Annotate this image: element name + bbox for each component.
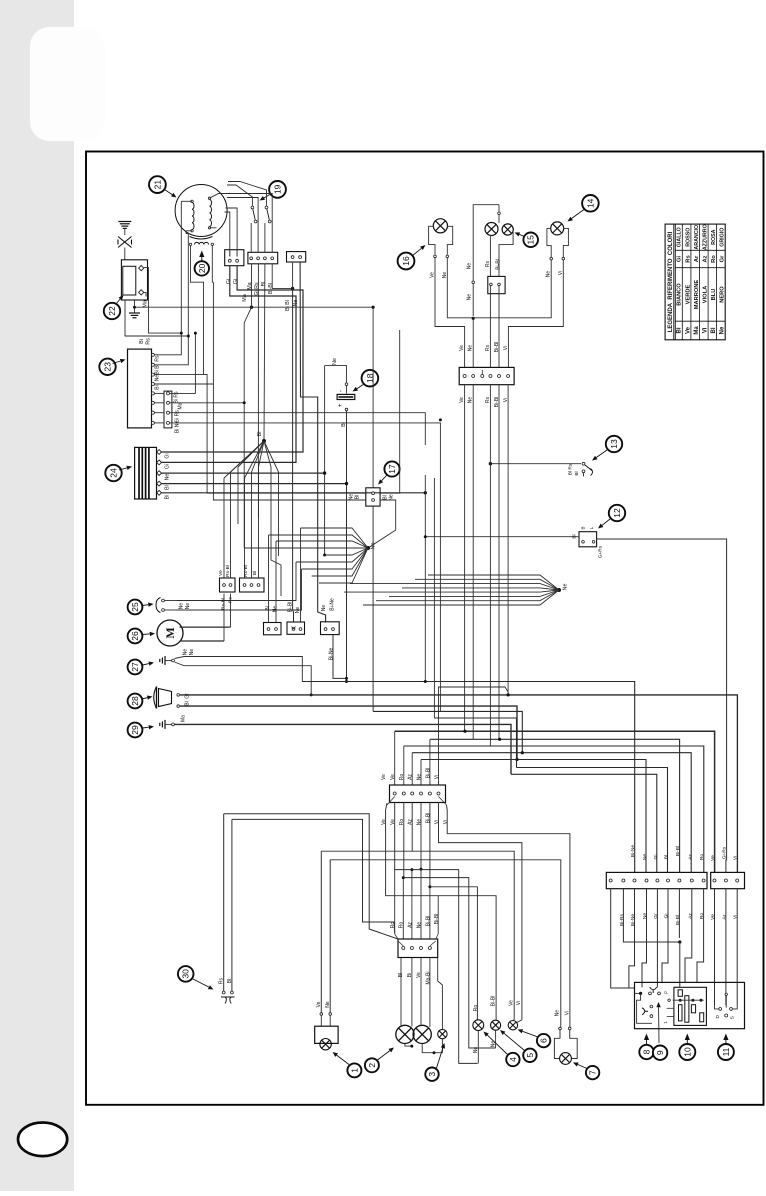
node Ne fan lower [344,575,569,605]
svg-text:Az: Az [703,255,709,262]
svg-text:Ar: Ar [721,914,727,919]
svg-text:Rs: Rs [219,977,225,984]
battery 18 [337,383,355,683]
pilot lamp 7 [554,1010,577,1065]
callout 14 [568,195,599,222]
callout 7 [573,1063,599,1080]
callout 25 [128,600,154,615]
svg-text:Rs-Bl: Rs-Bl [243,565,249,577]
lamp 5 [491,996,501,1048]
connector 6-pin dash [459,367,514,407]
wires below 6-pin headlamp connector staircase [386,802,570,1063]
svg-text:Ne: Ne [185,603,191,610]
svg-text:Ve: Ve [459,345,465,351]
wires strips to switch box [611,889,738,1005]
svg-text:AZZURRO: AZZURRO [703,224,709,250]
svg-text:Bl: Bl [257,432,263,437]
svg-text:Ne: Ne [467,263,473,270]
callout 11 [718,1034,734,1061]
svg-text:VERDE: VERDE [685,285,691,305]
svg-text:Ro: Ro [711,255,717,263]
callout 26 [128,629,155,644]
lamp 16 [429,219,453,279]
svg-text:3: 3 [427,1072,437,1077]
wire Bi-Ne from box down [333,635,348,680]
CDI unit 22 [121,260,147,300]
ground above spark plug [118,222,131,236]
svg-text:Gi: Gi [233,279,239,284]
svg-text:Ma: Ma [694,326,700,335]
callout 1 [333,1052,362,1077]
svg-text:Ne: Ne [417,922,423,929]
headlamp lamps 3 [396,958,447,1055]
svg-text:6: 6 [539,1038,549,1043]
svg-text:Ro: Ro [699,854,705,861]
svg-text:Bi-Ne: Bi-Ne [630,845,636,858]
svg-text:Bi Bl: Bi Bl [285,300,291,311]
legend table LEGENDA RIFERIMENTO COLORI [665,224,725,340]
svg-text:VIOLA: VIOLA [703,286,709,303]
svg-text:Bi: Bi [407,973,413,977]
svg-text:S: S [729,1016,735,1019]
tail lamp 1 [315,851,338,1050]
svg-text:Bi-Bl: Bi-Bl [675,846,681,856]
svg-text:Ve: Ve [509,1000,515,1006]
svg-text:Bi-Ne: Bi-Ne [330,598,336,611]
svg-text:24: 24 [109,468,119,478]
svg-text:12: 12 [612,508,622,518]
grey binder strip [0,0,74,1191]
callout 21 [149,176,177,197]
wires lamps to 6-pin connector [435,258,563,367]
callout 13 [592,436,622,461]
svg-text:Ve: Ve [316,1001,322,1007]
svg-text:GRIGIO: GRIGIO [720,228,726,247]
svg-text:Bl Rs: Bl Rs [568,463,574,475]
switch 11 dimmer [715,993,738,1019]
svg-text:Rs: Rs [685,255,691,262]
svg-text:Ar: Ar [694,255,700,262]
svg-text:10: 10 [682,1047,692,1057]
svg-text:Bi-Bl: Bi-Bl [496,259,502,270]
svg-text:ARANCIO: ARANCIO [694,225,700,250]
svg-text:Rs-Bl: Rs-Bl [225,565,231,577]
svg-text:Az: Az [408,922,414,928]
callout 18 [353,370,379,392]
svg-text:20: 20 [197,263,207,273]
svg-text:Vi: Vi [434,820,440,824]
callout 20 with arrow [195,251,209,276]
connector 4-pin Ma Gi-Rs Bl Bi-Bl [247,252,277,295]
svg-text:Bl: Bl [261,282,267,287]
svg-text:29: 29 [130,725,140,735]
callout 27 [128,660,154,675]
svg-text:D: D [715,1015,721,1019]
svg-text:Bl: Bl [711,327,717,333]
wires 6-pin column corners [395,687,508,785]
svg-text:M: M [163,627,177,638]
wire pickup leads [191,246,214,375]
svg-text:17: 17 [387,464,397,474]
page hole ellipse [18,1123,67,1157]
svg-text:Gr: Gr [653,913,659,919]
svg-text:Bi: Bi [155,385,161,389]
svg-text:Vi: Vi [434,775,440,779]
svg-text:Bi-Bl: Bi-Bl [426,768,432,779]
wire Ma bus to connector 17 [252,306,375,488]
callout 3 [425,1043,445,1081]
svg-text:Bl: Bl [574,471,580,475]
wires of pair boxes below [224,594,231,641]
svg-text:Gr: Gr [185,693,191,699]
svg-text:Ne: Ne [165,474,171,481]
svg-text:Ne: Ne [273,606,279,613]
svg-text:Bi-Rs: Bi-Rs [619,913,625,926]
svg-text:Ne: Ne [179,603,185,610]
svg-text:Gi: Gi [653,855,659,860]
svg-text:Bi-Ne: Bi-Ne [630,914,636,927]
ground 27 [160,649,347,697]
connector strip 9-pin [606,845,707,927]
wire Gi-Rs run from regulator [170,413,426,445]
lamps 15 twin [467,205,514,316]
svg-text:Ne: Ne [155,375,161,382]
diode unit 12 [572,526,604,558]
svg-text:11: 11 [721,1047,731,1056]
wire Bi-Ne run from regulator [170,423,441,478]
svg-text:14: 14 [585,198,595,208]
svg-text:Az: Az [408,774,414,780]
regulator box 23 [128,349,184,433]
resistor box 15 [488,276,505,367]
wire runs bundle to switch panel [180,682,737,873]
svg-text:Bi: Bi [165,495,171,500]
breaker switch 19a [251,201,257,253]
svg-text:27: 27 [130,662,140,672]
svg-text:8: 8 [642,1049,652,1054]
flasher unit 25 [156,598,191,613]
callout 29 [128,723,154,738]
svg-text:Rs: Rs [485,344,491,351]
node fan verticals down [424,418,442,718]
handlebar switch box [635,982,745,1028]
svg-text:ROSA: ROSA [711,229,717,244]
pickup coil under generator [189,237,213,246]
callout 9 [653,1002,667,1060]
wire device 12 left [425,536,579,538]
svg-text:23: 23 [103,362,113,372]
svg-text:28: 28 [130,696,140,706]
switch 10 block [663,987,706,1025]
svg-text:Rs: Rs [146,338,152,345]
wire Bi-Bl junction [272,262,294,623]
svg-text:Gi-Rs: Gi-Rs [598,545,604,558]
svg-text:Bi-Bl: Bi-Bl [491,996,497,1007]
svg-text:Ne: Ne [563,584,569,591]
svg-text:Ne: Ne [720,326,726,334]
svg-text:B: B [581,526,586,529]
connector 4-pin headlamp [390,914,440,985]
svg-text:Bi Rs: Bi Rs [174,391,180,403]
wire runs tail lamp right [321,851,561,1027]
connector 2-pin Gi Gi [225,250,244,285]
svg-text:1: 1 [349,1068,359,1073]
callout 23 [99,359,125,375]
svg-text:GIALLO: GIALLO [677,227,683,247]
svg-text:Ne: Ne [325,1001,331,1008]
callout 16 [398,245,426,269]
wires generator to connectors [225,182,273,257]
svg-text:Ve: Ve [218,570,224,576]
wire Ma run double jog [175,724,512,774]
svg-text:Ne: Ne [468,397,474,404]
motor 26 [157,620,231,646]
wire Bi-Ne run double jog [373,506,524,754]
white rounded thumb tab [30,27,105,141]
svg-text:7: 7 [588,1070,598,1075]
svg-text:Ma: Ma [178,402,184,409]
svg-text:Ve: Ve [685,326,691,334]
svg-text:Rs: Rs [485,260,491,267]
wire Ne to battery [325,358,347,555]
svg-text:4: 4 [508,1057,518,1062]
svg-text:Ne: Ne [417,819,423,826]
svg-text:BIANCO: BIANCO [677,283,683,306]
svg-text:Gi: Gi [664,914,670,919]
svg-text:+: + [337,403,344,407]
callout 19 [260,181,286,201]
callout 28 [128,694,153,709]
svg-text:Ne: Ne [189,649,195,656]
svg-text:Ve: Ve [381,774,387,780]
svg-text:Ma: Ma [181,715,187,722]
svg-text:Bl: Bl [165,485,171,490]
wire Bi Rs pair from CDI [125,268,188,345]
callout 15 [515,232,539,247]
wires from fuse box [162,266,427,495]
svg-text:Gi: Gi [226,279,232,284]
svg-text:Bi-Bl: Bi-Bl [494,342,500,353]
svg-text:Bi: Bi [677,327,683,333]
node Ne fan [244,528,376,583]
connector strip 3-pin [710,846,745,920]
svg-text:Ne: Ne [642,913,648,920]
svg-text:MARRONE: MARRONE [694,280,700,310]
callout 4 [484,1032,520,1067]
svg-text:Ro: Ro [699,913,705,920]
svg-text:Ne: Ne [473,1047,479,1054]
svg-text:25: 25 [130,602,140,612]
svg-text:Ma: Ma [247,282,253,289]
lamp 14 [546,222,569,277]
svg-text:Rs-Bl: Rs-Bl [221,598,227,610]
svg-text:21: 21 [152,180,162,190]
callout 5 [500,1030,537,1062]
svg-text:Bi-Ne: Bi-Ne [329,648,335,661]
svg-text:Ne: Ne [183,649,189,656]
connector box Bi-Bl Ne [287,602,305,635]
svg-text:Bi-Bl: Bi-Bl [426,813,432,824]
callout 8 [639,1034,653,1060]
diagram border frame [86,152,764,1105]
lamp 6 [508,1000,522,1030]
svg-text:Gi Rs: Gi Rs [175,410,181,423]
svg-text:Vi: Vi [733,915,739,919]
svg-text:Gi: Gi [677,256,683,263]
svg-text:Bi-Bl: Bi-Bl [426,916,432,927]
brake switch 13 [489,462,593,477]
wire node run double jog [434,718,516,768]
svg-text:Bl: Bl [185,701,191,705]
svg-text:26: 26 [130,631,140,641]
svg-text:5: 5 [525,1053,535,1058]
spark plug gap symbol [118,237,132,260]
callout 2 [365,1048,394,1073]
svg-text:Ve: Ve [710,914,716,920]
svg-text:Ma: Ma [143,300,149,308]
svg-text:Bl: Bl [355,495,361,499]
callout 6 [518,1029,551,1047]
svg-text:Ne: Ne [295,607,301,614]
svg-text:Ve: Ve [416,972,422,978]
svg-text:Bl: Bl [664,855,670,859]
svg-text:Vi: Vi [503,346,509,350]
svg-text:15: 15 [526,235,536,245]
connector box Ne Bi-Ne [321,598,340,660]
horn 28 [154,687,191,709]
svg-text:Bi-Bl: Bi-Bl [675,915,681,925]
svg-text:Rs: Rs [155,355,161,362]
svg-text:Ve: Ve [710,855,716,861]
svg-text:Vi: Vi [733,856,739,860]
svg-text:Bi Bl: Bi Bl [155,364,161,374]
svg-text:Ne: Ne [417,774,423,781]
wire horn run double jog [180,706,519,761]
svg-text:Bl: Bl [252,571,258,575]
svg-text:Gi: Gi [165,464,171,469]
wires from Ne fan to components [177,528,336,623]
switch 8 contacts [635,987,661,1023]
connector 2-pin Bi-Bl Ne [287,252,306,262]
svg-text:NERO: NERO [720,286,726,303]
svg-text:9: 9 [655,1050,665,1055]
generator U21 flywheel magneto [175,185,227,237]
svg-text:Ne: Ne [332,358,338,365]
svg-text:22: 22 [107,306,117,316]
svg-text:Ve: Ve [390,774,396,780]
ground 29 [160,715,187,729]
svg-text:Az: Az [687,854,693,860]
svg-text:Vi: Vi [443,820,449,824]
svg-text:Bi: Bi [139,339,145,344]
wires above 4-pin connector [395,802,439,939]
wire Ne from connector [293,262,326,623]
svg-text:Ne: Ne [467,294,473,301]
connector pair boxes Ve/Rs-Bl [218,565,264,610]
svg-text:Ro: Ro [473,1005,479,1012]
brake switch 30 [219,814,399,1004]
callout 24 [105,465,132,481]
svg-text:Bi-Bl: Bi-Bl [434,914,440,925]
wires regulator to top [155,201,245,493]
svg-text:ROSSO: ROSSO [685,228,691,247]
svg-text:19: 19 [273,184,283,194]
svg-text:BLU: BLU [711,289,717,301]
svg-text:Ne: Ne [468,345,474,352]
svg-text:Ma: Ma [242,294,248,302]
svg-text:Ne: Ne [642,854,648,861]
svg-text:Ne: Ne [546,271,552,278]
callout 22 [104,295,124,319]
callout 12 [598,505,625,529]
svg-text:Vi: Vi [516,1001,522,1005]
callout 30 [178,966,214,989]
connector box Bl Ne [264,606,282,635]
svg-text:Bl: Bl [227,979,233,983]
connector 17 [349,488,395,506]
svg-text:Ma-Bi: Ma-Bi [426,971,432,984]
wire Ma from CDI [135,294,252,307]
svg-text:Ro: Ro [399,774,405,781]
svg-text:-: - [338,390,345,392]
callout 10 [679,1034,695,1061]
svg-text:Bl: Bl [398,973,404,977]
svg-text:Vi: Vi [565,1011,571,1015]
svg-text:Ne: Ne [555,1010,561,1017]
svg-text:13: 13 [609,439,619,449]
wire Ma diagonal and down [243,264,254,548]
svg-text:Ve: Ve [381,819,387,825]
svg-text:LEGENDA RIFERIMENTO COLORI: LEGENDA RIFERIMENTO COLORI [668,231,674,332]
connector 6-pin headlamp [381,768,449,825]
svg-text:Bi-Bl: Bi-Bl [288,602,294,613]
wires below 6-pin connector [465,385,509,746]
wire Gi-Rs down from 4-pin [257,264,259,518]
breaker switch 19b [265,201,271,253]
svg-text:Ve: Ve [459,397,465,403]
svg-text:Ne: Ne [321,605,327,612]
svg-text:16: 16 [401,256,411,266]
lamp 4 [473,1005,484,1064]
svg-text:Gr: Gr [720,255,726,263]
callout 17 [378,461,400,484]
svg-text:30: 30 [181,969,191,979]
svg-text:2: 2 [367,1063,377,1068]
fuse box 24 hatched [135,447,171,499]
node Bl fan [224,432,281,596]
svg-text:Az: Az [687,913,693,919]
wires connector 17 [207,330,400,548]
wire Gi-Rs from 12 to switch panel [597,539,727,872]
svg-text:Gi-Rs: Gi-Rs [254,282,260,296]
wire Bl down to node [263,264,266,441]
svg-text:Vi: Vi [703,327,709,333]
ground under CDI [129,300,140,318]
svg-text:P: P [664,991,669,994]
svg-text:Bl: Bl [265,606,271,610]
svg-text:Gi: Gi [165,453,171,458]
svg-text:Gi-Rs: Gi-Rs [721,846,727,859]
